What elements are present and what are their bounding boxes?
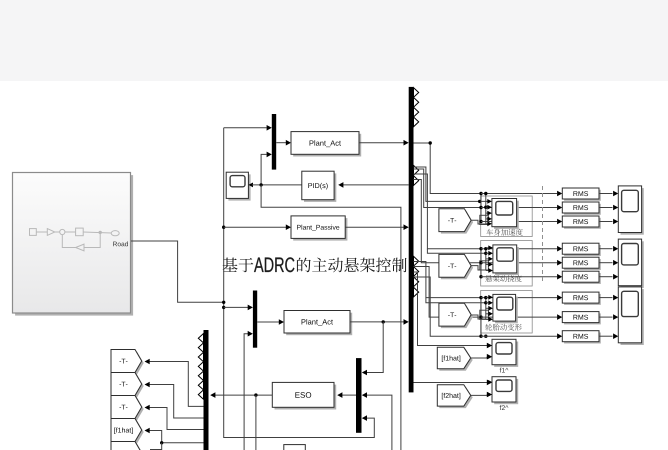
goto tag T2 (113, 375, 144, 398)
wire scope stub (486, 307, 489, 309)
scope f2hat (494, 379, 518, 404)
wire scope stub (486, 313, 489, 315)
wire busout drop C3 (414, 277, 482, 336)
goto tag T3 (113, 398, 144, 421)
scope display 2 (621, 241, 644, 288)
wire busout drop B2 (414, 180, 482, 263)
wire scope stub (486, 200, 488, 202)
wire fromtag g3 to scope (471, 315, 486, 319)
from tag f2hat (439, 387, 472, 408)
wire trunk to mux2 in1 (224, 306, 248, 308)
wire scope stub (486, 206, 488, 208)
wire to RMS8 (481, 316, 557, 318)
label f2^ (500, 405, 509, 410)
wire u feedback down-right (261, 185, 401, 450)
wire ESO mux to ESO (340, 394, 356, 396)
block PID(s) (304, 173, 336, 202)
wire scope stub (486, 296, 489, 298)
wire scope feed g1 (485, 194, 487, 224)
wire busout to f2 scope (414, 382, 488, 384)
wire Road output to trunk (131, 241, 223, 302)
annotation box g2 (481, 241, 533, 287)
wire mux1 to Plant_Act1 (276, 142, 286, 144)
wire scope stub (486, 263, 489, 265)
block Plant_Passive (293, 218, 347, 241)
wire to RMS2 (481, 207, 557, 209)
annotation box g3 (481, 291, 533, 334)
wire demux to Goto T1 (147, 362, 204, 407)
wire trunk to mux1 in1 (224, 127, 267, 129)
block RMS1 (564, 190, 601, 201)
junction dots on trunk (222, 301, 225, 304)
port box g2 (480, 261, 489, 270)
wire Plant_Act1 to Bus bar (359, 142, 404, 144)
wire harness vertical g2 (480, 249, 482, 277)
partial block at bottom edge (284, 445, 306, 450)
wire to RMS7 (481, 297, 557, 299)
wire scope stub (486, 223, 488, 225)
wire harness vertical g1 (480, 194, 482, 222)
label luntai dongbianxing (485, 324, 522, 331)
wire to RMS4 (481, 248, 557, 250)
dashed page boundary (542, 186, 544, 281)
wire ESO output to demux (213, 394, 272, 396)
mux Mux1 (272, 114, 276, 170)
wire bus to PID input (341, 184, 409, 186)
port box g1 (480, 215, 489, 224)
scope 车身加速度 (494, 201, 519, 229)
goto tag T1 (113, 352, 144, 375)
bus/selector bar (main) (409, 87, 414, 393)
wire busout drop C1 (414, 262, 482, 298)
scope f1hat (494, 342, 518, 367)
scope Scope1 (control monitor) (228, 174, 250, 200)
wire demux to Goto f1hat (147, 431, 204, 443)
wire busout drop f1 (414, 272, 488, 346)
wire to RMS5 (481, 262, 557, 264)
wire scope stub (486, 252, 489, 254)
wire to RMS1 (481, 193, 557, 195)
wire scope stub (486, 258, 489, 260)
label f1^ (500, 368, 509, 373)
wire busout drop A1 (414, 143, 482, 194)
goto tag f2hat (113, 444, 144, 450)
wire RMS outputs g3 (599, 297, 613, 299)
wire demux to Goto T2 (147, 385, 204, 419)
wire to RMS3 (481, 221, 557, 223)
wire scope stub (486, 247, 489, 249)
wire bottom to mux2 in2 (244, 334, 248, 450)
mux Mux2 (253, 291, 257, 348)
block RMS9 (564, 333, 601, 344)
label cheshen jiasudu (486, 229, 522, 236)
scope 轮胎动变形 (495, 297, 518, 324)
wire long scope feed g1 (414, 167, 488, 201)
wire RMS outputs g2 (599, 248, 613, 250)
wire scope stub (486, 270, 489, 272)
wire trunk vertical (road distribution) (224, 128, 375, 438)
goto tag f1hat (113, 421, 144, 444)
wire mux2 to Plant_Act2 (257, 321, 279, 323)
wire scope stub (486, 218, 488, 220)
block RMS7 (564, 294, 601, 305)
from tag -T- g2 (441, 256, 473, 279)
label xuanjia dongnaodu (485, 275, 521, 282)
wire Plant_Act2 to bus (350, 321, 404, 323)
wire trunk to Plant_Passive (224, 226, 286, 228)
wire scope stub (486, 212, 488, 214)
wire f2hat to scope (471, 394, 487, 397)
block ESO (275, 385, 337, 410)
from tag -T- g3 (441, 305, 473, 328)
annotation box g1 (481, 196, 533, 237)
wire scope stub (486, 302, 489, 304)
wire RMS outputs g1 (599, 193, 613, 195)
wire scope feed g3 (485, 298, 487, 320)
wire to RMS9 (481, 335, 557, 337)
scope display 3 (621, 289, 644, 345)
block RMS3 (564, 218, 601, 229)
wire busout drop A2 (414, 169, 482, 208)
wire scope feed g2 (485, 249, 487, 271)
wire demux to Goto f2hat (150, 443, 162, 450)
block RMS5 (564, 259, 601, 270)
window top band (0, 0, 668, 81)
wire to RMS6 (481, 276, 557, 278)
scope 悬架动挠度 (495, 247, 519, 275)
wire Plant_Passive to bus (345, 226, 404, 228)
wire fromtag g2 to scope (471, 266, 486, 270)
wire demux to Goto T3 (147, 408, 204, 430)
wire harness vertical g3 (480, 298, 482, 337)
block RMS2 (564, 204, 601, 215)
block Plant_Act (lower) (286, 313, 352, 336)
block RMS4 (564, 245, 601, 256)
wire ESO output branch down (255, 395, 257, 450)
block Plant_Act (top) (293, 134, 361, 157)
block RMS6 (564, 273, 601, 284)
wire fromtag g1 to scope (471, 220, 486, 224)
from tag f1hat (439, 349, 472, 370)
wire scope stub (486, 318, 489, 320)
title text ADRC suspension control (223, 258, 254, 273)
wire long scope feed g2 (427, 249, 487, 254)
wire busout drop C2 (414, 267, 482, 318)
scope display 1 (621, 188, 644, 235)
wire long scope feed g3 (426, 298, 488, 303)
wire f1hat to scope (471, 357, 487, 358)
port box g3 (480, 310, 489, 319)
mux ESO-input mux (356, 358, 362, 433)
from tag -T- g1 (441, 211, 473, 234)
block RMS8 (564, 313, 601, 324)
wire u to mux1 in2 (261, 154, 266, 185)
wire busout drop B1 (414, 174, 482, 249)
wire Plant_Act2 branch to ESO mux (365, 322, 384, 373)
demux estimate demux (bar5) (204, 330, 209, 450)
wire u to ESO mux (365, 395, 392, 450)
wire PID to Scope1 (252, 184, 302, 186)
